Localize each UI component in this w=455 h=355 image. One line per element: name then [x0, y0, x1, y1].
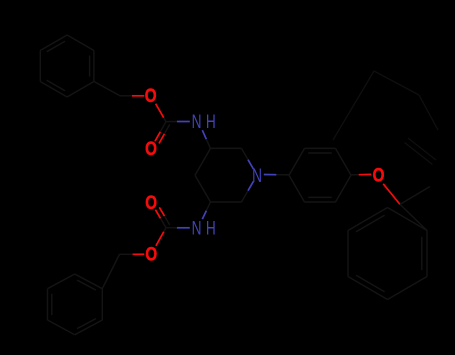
phenyl edge TL-TR: [305, 147, 336, 149]
svg-text:O: O: [373, 164, 385, 186]
benzene ring C double bond TL-T: [356, 215, 385, 232]
piperidine edge C3-C2: [211, 147, 242, 149]
benzene ring C edge BL-TL: [347, 231, 349, 277]
phenyl edge BL-L: [289, 175, 305, 202]
benzene ring A edge TL-BL: [39, 51, 41, 82]
benzene ring A edge T-TL: [40, 35, 67, 51]
benzene ring C edge TL-T: [348, 208, 388, 231]
bond ring B ipso - CH2 (benzyl bottom): [102, 254, 119, 288]
piperidine edge C6-C5: [211, 201, 242, 203]
phenyl edge BR-BL: [305, 201, 336, 203]
bond CH2 - O ester (top): [120, 95, 132, 97]
svg-text:O: O: [145, 243, 157, 265]
benzene ring B edge T-TL: [48, 274, 75, 289]
benzene ring C double bond B-BL: [356, 275, 385, 292]
phenyl double bond bottom: [308, 196, 332, 198]
svg-text:N: N: [192, 217, 202, 239]
phenyl double bond top: [308, 152, 332, 154]
bond CH2 - O ester (bottom): [120, 253, 133, 255]
benzene ring B double bond BR-B: [77, 319, 96, 329]
benzene ring C double bond TR-BR: [421, 237, 423, 270]
bond O ester - C carbonyl (top): [156, 104, 164, 118]
ghost double bond line a (right): [408, 138, 436, 160]
bond C carbonyl - NH (top): [166, 121, 177, 123]
bond O ester - C carbonyl (bottom): [156, 232, 164, 246]
phenyl edge R-BR: [336, 175, 352, 202]
bond NH - piperidine C3: [202, 130, 206, 139]
ghost double bond line b (right): [405, 143, 433, 165]
svg-text:H: H: [206, 217, 216, 239]
benzene ring A edge TR-T: [67, 35, 94, 51]
ghost line 2 (top right): [374, 71, 419, 95]
piperidine edge C4-C3: [195, 148, 211, 175]
bond phenyl - O ether: [351, 174, 359, 176]
benzene ring B double bond T-TR: [77, 280, 96, 290]
bond piperidine C2 - N1: [242, 148, 249, 159]
phenyl edge L-TL: [289, 148, 305, 175]
bond CH - CH3: [400, 187, 430, 205]
double bond C=O (top carbamate): [160, 122, 166, 132]
benzene ring C edge T-TR: [388, 208, 428, 231]
svg-text:O: O: [145, 137, 157, 159]
benzene ring A double bond BR-TR: [89, 56, 91, 77]
bond NH - piperidine C5 (bottom): [202, 211, 206, 220]
benzene ring B edge B-BR: [75, 320, 103, 335]
phenyl edge TR-R: [336, 148, 352, 175]
svg-text:O: O: [145, 191, 157, 213]
bond ring A ipso - CH2 (benzyl): [94, 82, 120, 96]
benzene ring A edge BR-TR: [93, 51, 95, 82]
benzene ring B double bond BL-TL: [51, 294, 53, 315]
double bond C=O (bottom carbamate): [161, 218, 167, 227]
benzene ring B edge TL-BL: [47, 289, 49, 320]
svg-text:N: N: [192, 111, 202, 133]
bond N1 - phenyl ipso: [264, 174, 277, 176]
benzene ring B edge TR-T: [75, 274, 103, 289]
svg-text:H: H: [206, 111, 216, 133]
benzene ring A double bond BL-B: [47, 80, 65, 91]
bond O ether - CH: [383, 184, 400, 205]
bond N1 - piperidine C6: [248, 181, 253, 190]
bond C carbonyl - NH (bottom): [166, 227, 177, 229]
svg-text:N: N: [252, 165, 262, 187]
benzene ring A edge B-BR: [67, 82, 94, 98]
benzene ring C edge B-BL: [348, 277, 388, 300]
benzene ring A double bond T-TL: [47, 41, 65, 52]
piperidine edge C5-C4: [195, 175, 211, 202]
bond CH - ring C ipso: [400, 204, 427, 230]
benzene ring C edge BR-B: [388, 277, 428, 300]
benzene ring C edge TR-BR: [426, 231, 428, 277]
ghost line 1 (top right): [333, 71, 374, 140]
ghost line 3 (top right): [419, 95, 438, 130]
benzene ring B edge BL-B: [48, 320, 75, 335]
benzene ring A edge BL-B: [40, 82, 67, 98]
svg-text:O: O: [145, 84, 157, 106]
benzene ring B edge BR-TR: [101, 289, 103, 320]
